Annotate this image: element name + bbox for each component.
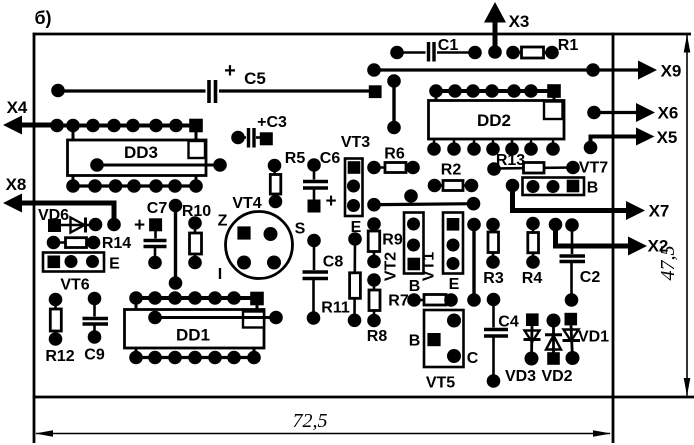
board outline bottom edge: [33, 396, 694, 399]
resistor R8: [367, 273, 388, 345]
svg-text:C8: C8: [323, 254, 344, 271]
svg-text:X2: X2: [648, 237, 669, 256]
board outline right edge: [612, 33, 615, 443]
svg-text:C4: C4: [498, 314, 519, 331]
capacitor C1: [390, 37, 482, 62]
svg-text:X4: X4: [7, 98, 28, 117]
diode VD3: [505, 313, 541, 385]
svg-text:VT6: VT6: [60, 277, 89, 294]
IC DD2: [427, 84, 564, 156]
resistor R10: [182, 203, 211, 269]
svg-text:Z: Z: [218, 213, 228, 230]
transistor VT7: [523, 178, 599, 197]
connector X6 arrow: [587, 103, 678, 123]
capacitor C5 with long wire: [51, 60, 381, 103]
svg-text:C: C: [467, 350, 479, 367]
svg-text:X3: X3: [509, 12, 530, 31]
svg-text:R6: R6: [384, 146, 405, 163]
svg-text:DD3: DD3: [124, 143, 158, 162]
svg-text:B: B: [409, 278, 421, 295]
svg-text:+: +: [134, 215, 145, 236]
svg-text:B: B: [409, 333, 421, 350]
wire node x394: [387, 74, 401, 134]
connector X7 arrow: [506, 179, 670, 221]
svg-text:R5: R5: [285, 150, 306, 167]
svg-text:R1: R1: [558, 37, 579, 54]
dimension line 72,5 bottom: [35, 410, 611, 437]
svg-text:VD3: VD3: [505, 368, 536, 385]
svg-text:S: S: [295, 221, 306, 238]
svg-text:R9: R9: [382, 232, 403, 249]
svg-text:DD2: DD2: [477, 111, 511, 130]
svg-text:VT3: VT3: [341, 134, 370, 151]
transistor VT5: [409, 310, 479, 392]
wire node x474: [467, 218, 481, 307]
transistor VT2: [383, 213, 424, 296]
resistor R5: [268, 150, 306, 208]
svg-text:+C3: +C3: [257, 114, 287, 131]
svg-text:VT2: VT2: [383, 252, 400, 281]
svg-text:R3: R3: [483, 270, 504, 287]
svg-text:X8: X8: [6, 175, 27, 194]
svg-text:VT7: VT7: [579, 160, 608, 177]
svg-text:+: +: [325, 191, 336, 212]
capacitor C9: [83, 292, 109, 364]
svg-text:R2: R2: [441, 162, 462, 179]
capacitor C7: [134, 200, 167, 269]
svg-text:X6: X6: [658, 104, 679, 123]
svg-text:VT4: VT4: [232, 195, 261, 212]
svg-text:C7: C7: [147, 200, 168, 217]
resistor R13: [487, 152, 608, 177]
capacitor C2: [560, 218, 601, 307]
svg-text:VT5: VT5: [426, 375, 455, 392]
svg-text:C5: C5: [244, 69, 266, 88]
svg-text:R14: R14: [102, 235, 131, 252]
svg-text:C9: C9: [84, 347, 105, 364]
capacitor C4: [484, 293, 519, 388]
resistor R9: [367, 217, 403, 268]
transistor VT1: [421, 213, 464, 294]
resistor R11: [321, 232, 362, 327]
node pad 411: [404, 189, 418, 203]
svg-text:R7: R7: [388, 293, 409, 310]
resistor R3: [483, 218, 504, 287]
svg-text:VT1: VT1: [421, 252, 438, 281]
IC DD3: [57, 119, 227, 193]
capacitor C6: [303, 150, 340, 213]
diode VD6: [38, 207, 102, 233]
resistor R6: [367, 146, 420, 175]
resistor R4: [522, 217, 543, 287]
svg-text:C6: C6: [320, 150, 341, 167]
connector X9 arrow with wire: [367, 61, 681, 81]
svg-text:E: E: [109, 256, 120, 273]
svg-text:VD2: VD2: [541, 368, 572, 385]
dimension line 47,5 right: [657, 35, 690, 397]
resistor R7: [388, 293, 458, 310]
svg-text:C1: C1: [438, 37, 459, 54]
diode VD2: [541, 314, 572, 386]
connector X2 arrow: [549, 218, 669, 256]
svg-text:DD1: DD1: [176, 326, 210, 345]
transistor VT4: [218, 195, 306, 283]
connector X5 arrow: [584, 128, 678, 155]
connector X4 arrow: [3, 98, 64, 135]
svg-text:X7: X7: [649, 202, 670, 221]
board outline top edge: [33, 33, 691, 36]
wire node x175: [169, 199, 183, 290]
capacitor C3: [231, 114, 287, 148]
IC DD1: [125, 291, 283, 364]
svg-text:б): б): [34, 8, 51, 28]
svg-text:R12: R12: [45, 348, 74, 365]
connector X8 arrow: [3, 175, 121, 231]
svg-text:+: +: [224, 60, 236, 82]
svg-text:R8: R8: [367, 328, 388, 345]
svg-text:R11: R11: [321, 300, 350, 317]
transistor VT3: [341, 134, 370, 236]
svg-text:X9: X9: [661, 62, 682, 81]
svg-text:C2: C2: [580, 269, 601, 286]
resistor R1: [506, 37, 578, 59]
transistor VT6: [43, 253, 120, 294]
svg-text:B: B: [587, 180, 599, 197]
svg-text:VD1: VD1: [578, 329, 609, 346]
resistor R12: [45, 293, 74, 365]
wire mid horizontal: [367, 197, 480, 212]
svg-text:72,5: 72,5: [293, 410, 328, 432]
svg-text:I: I: [218, 266, 222, 283]
board outline left edge: [33, 33, 36, 443]
diode VD1: [563, 313, 610, 365]
svg-text:E: E: [449, 276, 460, 293]
capacitor C8: [303, 234, 344, 325]
resistor R2: [428, 162, 479, 193]
svg-text:R4: R4: [522, 270, 543, 287]
resistor R14: [47, 235, 132, 252]
svg-text:X5: X5: [657, 128, 678, 147]
connector X3 arrow: [484, 2, 529, 59]
